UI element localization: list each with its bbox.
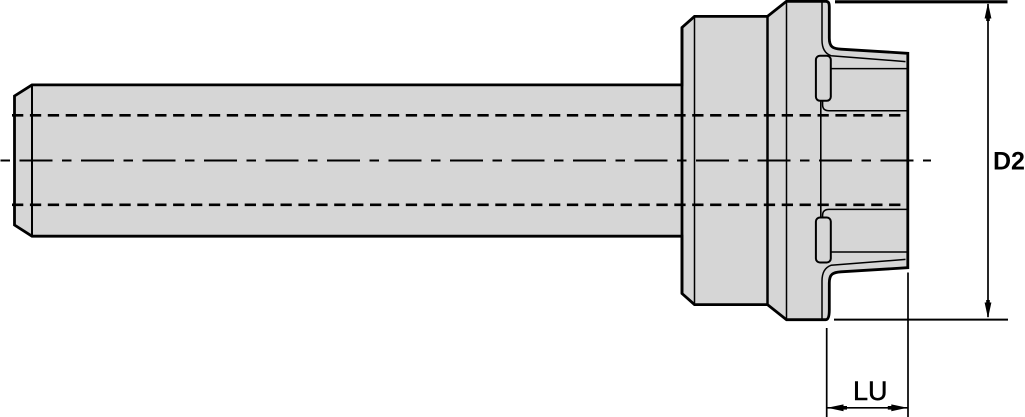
- flange step edge: [766, 16, 769, 304]
- bore edge between slots: [820, 101, 822, 218]
- LU dimension line: [828, 407, 908, 409]
- clamping slot (bottom): [816, 218, 831, 263]
- flange slant tangent line: [786, 1, 788, 319]
- rim inner edge (bottom): [822, 259, 906, 319]
- flange left face edge: [681, 28, 684, 294]
- face step elbow (top): [823, 101, 907, 111]
- svg-text:LU: LU: [853, 376, 888, 406]
- D2 arrow (top): [985, 3, 992, 19]
- D2 extension line (top): [835, 0, 1008, 3]
- LU arrow (right): [891, 404, 907, 411]
- D2 extension line (bottom): [834, 319, 1008, 321]
- LU arrow (left): [827, 404, 843, 411]
- clamping slot (top): [816, 56, 831, 101]
- rim inner edge (top): [822, 2, 906, 62]
- hidden bore line (top, dashed): [8, 114, 907, 117]
- svg-text:D2: D2: [993, 148, 1025, 176]
- D2 arrow (bottom): [985, 303, 992, 319]
- LU extension line (left): [826, 328, 828, 417]
- face groove line (top): [831, 68, 907, 70]
- face groove line (bottom): [831, 251, 907, 253]
- centerline (dash-dot): [0, 160, 931, 162]
- LU extension line (right): [907, 273, 909, 417]
- shaft chamfer edge line: [31, 85, 33, 236]
- cone tangent line: [694, 16, 696, 304]
- face step elbow (bottom): [823, 209, 907, 217]
- D2 dimension line: [987, 4, 989, 317]
- hidden bore line (bottom, dashed): [8, 204, 907, 207]
- toolholder body silhouette: [15, 1, 908, 319]
